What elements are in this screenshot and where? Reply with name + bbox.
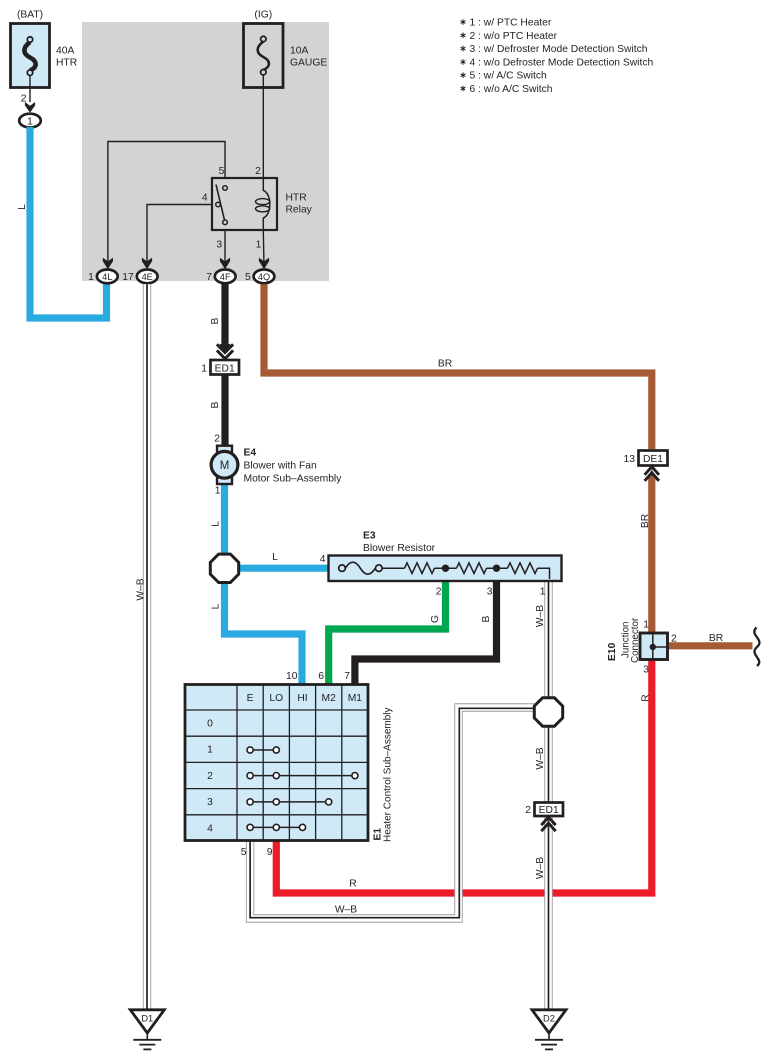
svg-text:1: 1 xyxy=(540,587,546,598)
svg-text:B: B xyxy=(210,401,221,408)
svg-text:3: 3 xyxy=(216,240,222,251)
motor E4 Blower with Fan Motor Sub-Assembly xyxy=(211,446,342,497)
arrow into DE1 xyxy=(645,467,659,481)
svg-text:Blower Resistor: Blower Resistor xyxy=(363,543,436,554)
wire B (black) 4F to ED1 xyxy=(221,280,228,345)
svg-text:M1: M1 xyxy=(348,693,363,704)
arrow into connector 4E xyxy=(142,258,152,270)
legend bullets xyxy=(461,19,466,91)
svg-text:G: G xyxy=(430,615,441,623)
arrow into ED1 xyxy=(217,344,233,359)
svg-text:W–B: W–B xyxy=(535,605,546,627)
svg-text:W–B: W–B xyxy=(136,578,147,600)
svg-text:Connector: Connector xyxy=(630,617,641,663)
svg-text:L: L xyxy=(211,521,222,527)
wire relay pin 3 to connector 4F xyxy=(224,230,226,262)
connector 4Q xyxy=(245,270,274,284)
svg-text:10A: 10A xyxy=(290,46,308,57)
legend notes xyxy=(470,18,654,96)
label BR xyxy=(640,514,651,528)
svg-text:2: 2 xyxy=(207,771,213,782)
svg-text:Relay: Relay xyxy=(286,205,313,216)
blower resistor E3 xyxy=(320,531,562,598)
svg-text:L: L xyxy=(211,603,222,609)
svg-text:M: M xyxy=(220,460,230,472)
continuation squiggle xyxy=(754,628,759,667)
wire relay pin 5 to connector 4L xyxy=(108,142,225,263)
svg-text:3 : w/ Defroster Mode Detectio: 3 : w/ Defroster Mode Detection Switch xyxy=(470,44,648,55)
svg-text:2: 2 xyxy=(525,805,531,816)
arrow into connector 4F xyxy=(220,258,230,270)
wire relay pin 4 to connector 4E xyxy=(147,205,212,263)
svg-text:M2: M2 xyxy=(322,693,337,704)
svg-text:2: 2 xyxy=(671,634,677,645)
svg-text:4E: 4E xyxy=(142,272,153,282)
fuse F2 10A GAUGE (IG) xyxy=(244,10,328,88)
ground D1 xyxy=(130,1010,164,1050)
svg-text:1: 1 xyxy=(215,486,221,497)
svg-text:1: 1 xyxy=(27,116,33,127)
svg-text:E: E xyxy=(247,693,254,704)
svg-text:3: 3 xyxy=(643,665,649,676)
wire L (cyan) junction to E3 pin 4 xyxy=(237,565,330,572)
connector DE1 pin 13 xyxy=(624,451,668,466)
svg-text:40A: 40A xyxy=(56,46,74,57)
svg-text:W–B: W–B xyxy=(335,905,357,916)
svg-text:4L: 4L xyxy=(102,272,112,282)
svg-text:1: 1 xyxy=(201,363,207,374)
switch row 2 contacts xyxy=(247,773,358,779)
wire BR (brown) DE1 to E10 pin 1 xyxy=(648,477,655,634)
E1 pin labels xyxy=(241,671,351,858)
wire fuse F2 to relay pin 2 xyxy=(262,75,264,179)
wire relay pin 1 to connector 4Q xyxy=(262,230,265,262)
wire W-B E3 pin 1 to junction xyxy=(544,580,552,700)
svg-text:HI: HI xyxy=(297,693,307,704)
label W-B xyxy=(136,578,147,600)
svg-text:1: 1 xyxy=(88,272,94,283)
svg-text:R: R xyxy=(641,694,652,701)
label Junction Connector (rotated) xyxy=(620,617,641,663)
svg-text:3: 3 xyxy=(207,797,213,808)
svg-text:5: 5 xyxy=(219,166,225,177)
label W-B xyxy=(535,605,546,627)
svg-text:4Q: 4Q xyxy=(258,272,270,282)
svg-text:6: 6 xyxy=(318,671,324,682)
svg-text:0: 0 xyxy=(207,719,213,730)
wire L (cyan) junction to E1 pin 10 xyxy=(225,580,303,686)
svg-text:LO: LO xyxy=(269,693,283,704)
svg-text:2: 2 xyxy=(255,166,261,177)
svg-text:1: 1 xyxy=(207,745,213,756)
svg-text:Blower with Fan: Blower with Fan xyxy=(244,461,318,472)
svg-text:10: 10 xyxy=(286,671,298,682)
svg-text:D2: D2 xyxy=(543,1014,555,1024)
wire W-B E1 pin 5 to junction xyxy=(250,708,537,919)
svg-text:5: 5 xyxy=(241,847,247,858)
svg-text:Motor Sub–Assembly: Motor Sub–Assembly xyxy=(244,474,343,485)
wire BR (brown) E10 pin 2 to right xyxy=(666,642,753,649)
svg-text:4: 4 xyxy=(320,554,326,565)
svg-text:E3: E3 xyxy=(363,531,376,542)
svg-text:9: 9 xyxy=(267,847,273,858)
wire L (cyan) motor to junction xyxy=(221,482,228,556)
wire BR (brown) 4Q to DE1 xyxy=(264,284,652,449)
switch row 4 contacts xyxy=(247,824,306,830)
svg-text:GAUGE: GAUGE xyxy=(290,58,327,69)
wire B (black) E3 pin 3 to E1 pin 7 xyxy=(355,580,497,686)
relay K1 HTR Relay xyxy=(202,166,313,251)
svg-text:E4: E4 xyxy=(244,448,257,459)
svg-text:(IG): (IG) xyxy=(254,10,272,21)
ground D2 xyxy=(532,1010,566,1050)
arrow into node 1 xyxy=(25,102,35,113)
svg-text:ED1: ED1 xyxy=(539,805,559,816)
wire G (green) E3 pin 2 to E1 pin 6 xyxy=(329,580,446,686)
wire fuse F1 to node 1 xyxy=(29,75,31,102)
arrow into connector 4Q xyxy=(259,258,269,270)
svg-text:R: R xyxy=(349,879,356,890)
connector ED1 pin 1 xyxy=(201,360,239,375)
svg-text:4: 4 xyxy=(202,192,208,203)
connector ED1 pin 2 xyxy=(525,803,563,817)
connector 4E xyxy=(122,270,157,284)
connector 4L xyxy=(88,270,118,284)
svg-text:5 : w/ A/C Switch: 5 : w/ A/C Switch xyxy=(470,71,548,82)
wire B (black) ED1 to motor xyxy=(221,375,228,448)
svg-text:L: L xyxy=(17,204,28,210)
heater control sub-assembly E1 xyxy=(185,685,368,841)
label W-B xyxy=(535,747,546,769)
wire W-B 4E to ground D1 xyxy=(143,284,151,1011)
svg-text:BR: BR xyxy=(709,633,723,644)
svg-text:13: 13 xyxy=(624,454,636,465)
svg-text:HTR: HTR xyxy=(286,193,307,204)
svg-text:BR: BR xyxy=(640,514,651,528)
svg-text:4 : w/o Defroster Mode Detecti: 4 : w/o Defroster Mode Detection Switch xyxy=(470,57,654,68)
svg-text:1: 1 xyxy=(643,620,649,631)
svg-text:2: 2 xyxy=(436,587,442,598)
relay block background xyxy=(82,22,329,281)
svg-text:3: 3 xyxy=(487,587,493,598)
svg-text:4F: 4F xyxy=(220,272,231,282)
junction node octagon xyxy=(210,554,238,582)
switch row 1 contacts xyxy=(247,747,279,753)
svg-text:7: 7 xyxy=(206,272,212,283)
svg-text:7: 7 xyxy=(344,671,350,682)
junction connector E10 xyxy=(640,620,677,676)
svg-text:DE1: DE1 xyxy=(643,454,663,465)
svg-text:5: 5 xyxy=(245,272,251,283)
arrow into connector 4L xyxy=(103,258,113,270)
svg-text:E10: E10 xyxy=(607,642,618,661)
svg-text:L: L xyxy=(272,552,278,563)
svg-text:1: 1 xyxy=(256,240,262,251)
svg-text:B: B xyxy=(210,317,221,324)
arrow into ED1 pin 2 xyxy=(541,817,555,831)
svg-text:1 : w/ PTC Heater: 1 : w/ PTC Heater xyxy=(470,18,552,29)
fuse F1 40A HTR (BAT) xyxy=(11,10,78,88)
wire R (red) E1 pin 9 to E10 pin 3 xyxy=(276,658,652,893)
svg-text:B: B xyxy=(481,615,492,622)
node 1 ellipse xyxy=(19,114,41,128)
svg-text:ED1: ED1 xyxy=(215,363,235,374)
svg-text:W–B: W–B xyxy=(535,857,546,879)
svg-text:2: 2 xyxy=(214,434,220,445)
svg-text:BR: BR xyxy=(438,359,452,370)
svg-text:(BAT): (BAT) xyxy=(17,10,43,21)
label W-B xyxy=(535,857,546,879)
connector 4F xyxy=(206,270,235,284)
wire L (cyan) node 1 to 4L xyxy=(30,127,107,318)
svg-text:6 : w/o A/C Switch: 6 : w/o A/C Switch xyxy=(470,84,553,95)
svg-text:HTR: HTR xyxy=(56,58,77,69)
svg-text:4: 4 xyxy=(207,823,213,834)
svg-text:2 : w/o PTC Heater: 2 : w/o PTC Heater xyxy=(470,31,558,42)
svg-text:W–B: W–B xyxy=(535,747,546,769)
svg-text:D1: D1 xyxy=(141,1014,153,1024)
switch row 3 contacts xyxy=(247,799,332,805)
junction node octagon 2 xyxy=(534,698,562,726)
svg-text:17: 17 xyxy=(122,272,134,283)
wire W-B junction to ED1 to ground D2 xyxy=(544,724,552,1011)
svg-text:Heater Control Sub–Assembly: Heater Control Sub–Assembly xyxy=(382,707,393,842)
